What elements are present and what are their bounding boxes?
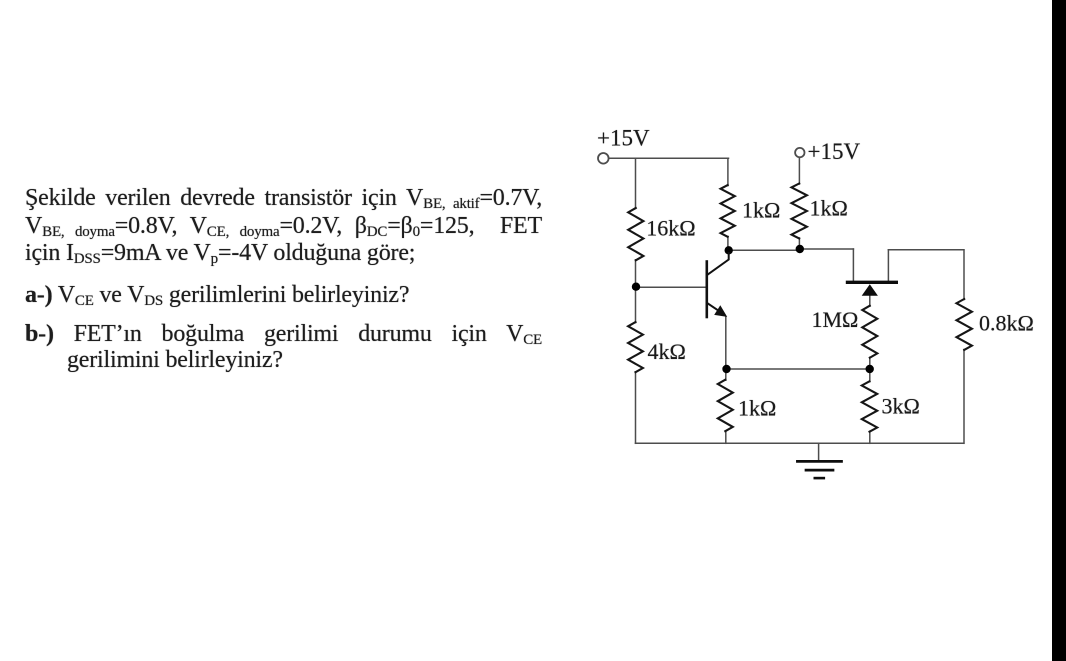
svg-text:1kΩ: 1kΩ — [738, 396, 776, 421]
svg-text:16kΩ: 16kΩ — [646, 216, 695, 241]
svg-text:4kΩ: 4kΩ — [648, 339, 686, 364]
svg-text:1kΩ: 1kΩ — [810, 196, 848, 221]
svg-text:1MΩ: 1MΩ — [812, 307, 859, 332]
svg-text:3kΩ: 3kΩ — [882, 394, 920, 419]
svg-text:1kΩ: 1kΩ — [742, 198, 780, 223]
svg-text:+15V: +15V — [597, 125, 650, 150]
svg-text:0.8kΩ: 0.8kΩ — [979, 311, 1034, 336]
svg-text:+15V: +15V — [808, 139, 861, 164]
